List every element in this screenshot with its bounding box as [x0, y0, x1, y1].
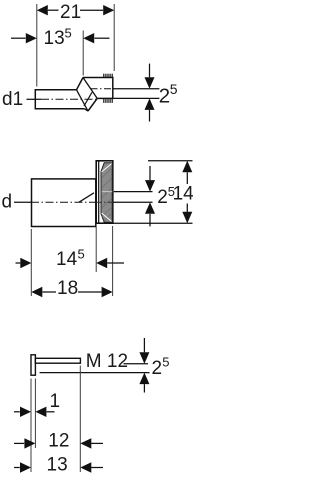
miter joint line 1 — [77, 90, 89, 111]
dimension 2.5 fig3 arrow up — [139, 373, 149, 385]
gasket hatch — [102, 168, 113, 222]
dimension 1 arrow right — [35, 407, 46, 417]
centerline fig2 — [31, 201, 96, 203]
inner oblique line — [85, 109, 89, 111]
leader line d1 — [27, 98, 42, 100]
svg-text:2: 2 — [157, 187, 168, 208]
ext 2.5 top fig2 (flange axis) — [114, 191, 153, 193]
ext line 14.5 right (x=96.2) — [95, 227, 97, 272]
dimension 18 arrow right — [78, 291, 102, 293]
extension line right (x=114) — [113, 4, 115, 71]
dimension 1 arrow left — [14, 411, 20, 413]
gasket slit bottom — [102, 213, 112, 222]
svg-text:14: 14 — [173, 184, 193, 205]
dimension 14.5 arrow left — [16, 262, 21, 264]
svg-text:2: 2 — [159, 85, 170, 108]
tube d1 body — [35, 90, 84, 109]
dimension 13 arrow left — [14, 467, 20, 469]
dimension 2.5 fig2 arrow down — [149, 166, 151, 180]
gasket slit top — [102, 164, 112, 173]
dimension 14.5 arrow right — [96, 258, 107, 268]
collar right edge — [112, 77, 114, 99]
dimension 13.5 arrow left — [11, 37, 26, 39]
leader line d — [14, 201, 31, 203]
oblique edge upper — [77, 78, 84, 90]
dimension 21 arrow right — [80, 9, 103, 11]
extension line mid (x=83.5) — [82, 31, 84, 76]
pin head plate — [31, 355, 35, 375]
svg-text:d1: d1 — [2, 89, 23, 110]
ext 2.5 bottom (tube axis) — [113, 97, 160, 99]
pin rod — [35, 358, 80, 363]
svg-text:5: 5 — [78, 247, 85, 262]
reference line below rod — [40, 372, 150, 374]
dimension 2.5 fig3 arrow down — [143, 338, 145, 352]
ext 2.5 bottom fig2 (cylinder axis) — [113, 201, 153, 203]
gasket groove bottom — [96, 201, 113, 203]
tube centerline — [41, 98, 96, 100]
svg-text:13: 13 — [44, 28, 65, 49]
collar bottom edge — [97, 97, 113, 99]
collar centerline — [91, 88, 113, 90]
dimension 13.5 arrow right — [83, 33, 94, 43]
ext line fig3 head-right (x=36.2) — [34, 379, 36, 449]
svg-text:14: 14 — [56, 249, 78, 270]
dimension 13 arrow right — [80, 462, 91, 472]
flange outer box — [96, 161, 113, 223]
dimension 2.5 arrow down — [149, 64, 151, 78]
cylinder body — [32, 179, 96, 227]
oblique edge lower — [88, 98, 97, 111]
dimension 2.5 arrow up — [145, 98, 155, 110]
svg-text:5: 5 — [170, 81, 178, 97]
svg-text:2: 2 — [152, 358, 163, 379]
ext line fig3 head-left (x=31.8) — [30, 379, 32, 473]
dimension 12 arrow left — [14, 442, 24, 444]
gasket — [101, 163, 112, 222]
dimension 14 arrow up — [182, 161, 192, 173]
ext 2.5 top fig3 — [124, 363, 149, 365]
dimension 12 arrow right — [80, 438, 91, 448]
collar top edge — [83, 77, 113, 79]
svg-text:5: 5 — [65, 26, 72, 41]
chamfer diagonal — [79, 193, 94, 202]
dimension 18 arrow left — [31, 287, 42, 297]
flange inner line — [98, 161, 100, 223]
dimension 21 arrow left — [37, 5, 48, 15]
ext line 18 right (x=112.6) — [112, 226, 114, 296]
dimension 14 arrow down — [186, 204, 188, 213]
ext 14 bottom — [113, 222, 193, 224]
extension line left (x=37) — [36, 4, 38, 87]
svg-text:21: 21 — [60, 2, 81, 23]
thread teeth top — [104, 74, 112, 78]
miter joint line 2 — [83, 78, 97, 99]
ext 2.5 top (collar axis) — [113, 88, 160, 90]
svg-text:M 12: M 12 — [86, 351, 128, 372]
svg-text:12: 12 — [48, 430, 69, 451]
dimension 2.5 fig2 arrow up — [145, 202, 155, 214]
svg-text:18: 18 — [57, 278, 78, 299]
svg-text:13: 13 — [47, 455, 68, 476]
svg-text:1: 1 — [50, 391, 61, 412]
svg-text:d: d — [2, 192, 13, 213]
thread teeth bottom — [104, 99, 112, 103]
ext line 14.5 left (x=31.3) — [30, 229, 32, 296]
svg-text:5: 5 — [162, 355, 169, 370]
ext 14 top — [148, 160, 193, 162]
gasket groove top — [102, 191, 112, 193]
ext line fig3 rod-end (x=80) — [79, 366, 81, 473]
